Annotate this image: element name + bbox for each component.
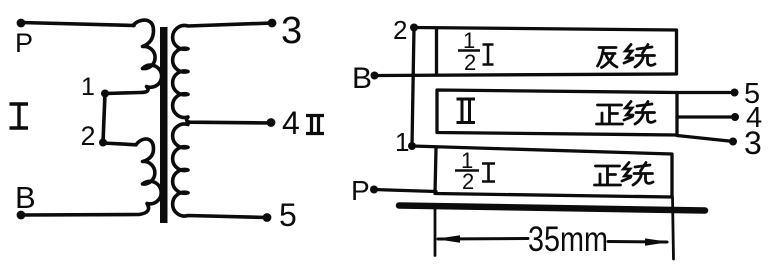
wire P to bottom layer — [374, 190, 436, 192]
svg-text:1: 1 — [81, 73, 95, 101]
svg-text:P: P — [351, 175, 370, 206]
label 正绕 (forward wound, bottom layer) — [595, 166, 621, 185]
dimension line left segment with arrow — [438, 237, 528, 241]
svg-text:4: 4 — [282, 105, 300, 141]
terminal dot 4 — [267, 118, 276, 127]
terminal dot 4 (layer diagram) — [731, 113, 739, 121]
dimension arrowhead right — [645, 238, 670, 245]
top layer rectangle (half primary, reverse wound) — [414, 28, 677, 74]
terminal dot 1 (layer diagram) — [408, 142, 416, 150]
svg-text:2: 2 — [462, 169, 474, 194]
label 正绕 (forward wound, middle layer) — [597, 105, 623, 124]
secondary winding upper half (4 humps) — [173, 23, 272, 123]
svg-text:5: 5 — [279, 197, 297, 233]
terminal dot 2 (tap) — [99, 139, 107, 147]
wire B to top layer (bottom edge) — [375, 74, 677, 76]
svg-text:35mm: 35mm — [528, 220, 608, 259]
primary winding lower half (3 humps) — [21, 139, 161, 215]
terminal dot 5 — [263, 213, 272, 222]
wire middle layer to terminal 4 — [677, 115, 731, 118]
terminal dot 3 (layer diagram) — [729, 138, 737, 146]
terminal dot B (layer diagram) — [371, 72, 379, 80]
svg-text:3: 3 — [744, 125, 762, 161]
bottom layer rectangle (half primary, forward wound) — [412, 146, 672, 197]
svg-text:2: 2 — [81, 121, 96, 151]
primary winding upper half (3 humps) — [106, 20, 162, 93]
transformer core — [160, 27, 168, 223]
wire middle layer to terminal 3 — [677, 136, 729, 142]
dimension extension line left — [434, 209, 437, 256]
dimension extension line right — [673, 197, 674, 259]
dimension arrowhead left — [436, 235, 461, 243]
wire P to primary winding — [21, 23, 134, 26]
secondary winding lower half (4 humps) — [173, 124, 267, 218]
svg-text:2: 2 — [464, 50, 476, 75]
svg-text:1: 1 — [395, 127, 409, 157]
terminal dot 1 (tap) — [101, 90, 109, 98]
wire joining 2 to 1 (layer diagram) — [412, 28, 414, 147]
dimension line right segment with arrow — [608, 240, 667, 244]
svg-text:3: 3 — [281, 10, 302, 52]
svg-text:B: B — [352, 62, 372, 95]
label II (secondary winding numeral) — [306, 116, 324, 134]
terminal dot B (left schematic) — [17, 211, 26, 220]
terminal dot 2 (layer diagram) — [410, 24, 418, 32]
middle layer rectangle (secondary II) — [437, 90, 677, 135]
numeral II (middle layer) — [457, 99, 476, 123]
terminal dot P (left schematic) — [17, 19, 26, 28]
svg-text:2: 2 — [393, 15, 407, 45]
svg-text:B: B — [15, 180, 36, 215]
label I (primary winding numeral) — [10, 104, 29, 128]
svg-text:P: P — [15, 28, 33, 58]
fraction 1/2 and numeral I (bottom layer) — [455, 164, 495, 182]
terminal dot 5 (layer diagram) — [731, 89, 739, 97]
terminal dot 3 — [268, 19, 277, 28]
wire joining taps 1 and 2 — [103, 94, 105, 143]
label 反绕 (reverse wound) — [598, 48, 618, 68]
coil former thick bar — [399, 206, 705, 211]
terminal dot P (layer diagram) — [370, 186, 378, 194]
fraction 1/2 and numeral I (top layer) — [458, 45, 494, 65]
wire middle layer to terminal 5 — [677, 91, 730, 94]
